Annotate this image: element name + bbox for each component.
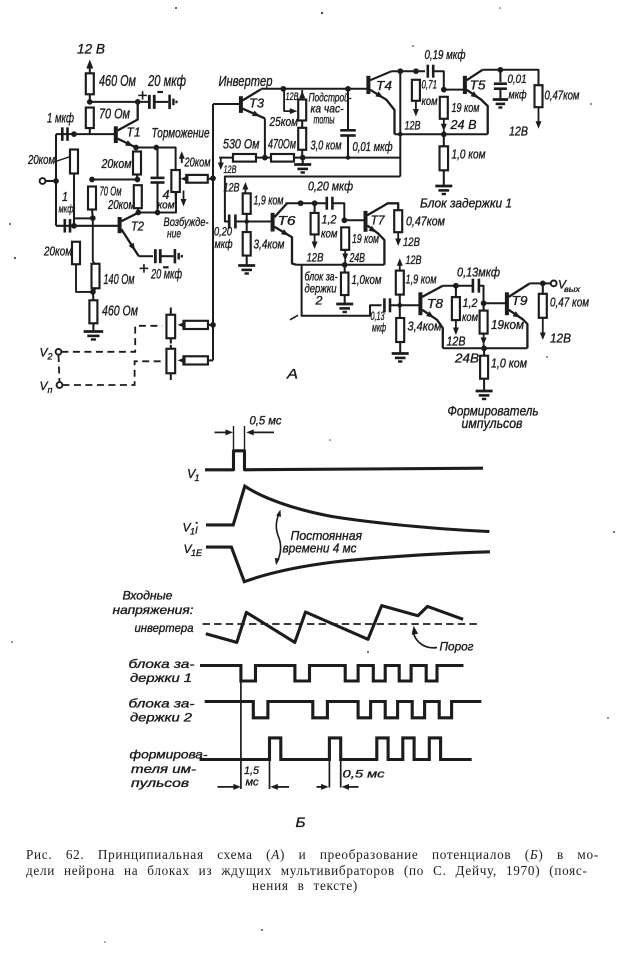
svg-text:ние: ние — [167, 227, 181, 241]
node A junction dots — [87, 99, 93, 105]
wire 20ком-C to line179 — [136, 175, 138, 180]
time-constant curved arrow — [276, 513, 280, 563]
svg-text:12В: 12В — [286, 91, 299, 103]
inverter input sawtooth trace — [206, 606, 463, 643]
svg-text:напряжения:: напряжения: — [113, 605, 194, 617]
svg-text:140 Ом: 140 Ом — [104, 271, 135, 288]
svg-text:19 ком: 19 ком — [352, 232, 379, 246]
resistor 1,2 ком block2 — [311, 213, 319, 235]
transistor T3 emitter with arrow — [243, 109, 265, 119]
node dot 292 — [90, 289, 96, 295]
svg-text:0,19 мкф: 0,19 мкф — [425, 48, 466, 62]
bus dots — [210, 175, 216, 181]
cross-coupling cap leads — [156, 148, 158, 178]
svg-text:+: + — [139, 259, 149, 278]
resistor 460 Ом (T1 collector supply) — [86, 73, 94, 94]
arrow 24В lead of 19ком — [443, 119, 445, 127]
resistor 1,2 ком shaper — [452, 297, 460, 320]
wire cap to T6 base — [235, 221, 271, 223]
resistor 19ком shaper lead — [483, 303, 485, 310]
svg-text:мкф: мкф — [509, 90, 527, 102]
wire T1 base line — [56, 133, 114, 135]
transistor T9 collector — [509, 284, 530, 297]
svg-text:Блок задержки 1: Блок задержки 1 — [420, 196, 512, 211]
transistor T5 emitter with arrow — [467, 90, 488, 135]
svg-text:0,71: 0,71 — [422, 80, 438, 92]
wire 20ком-D to T2 collector — [137, 208, 140, 212]
dashed wire V2-Vn — [59, 355, 60, 382]
trace V1I — [206, 486, 489, 531]
svg-text:ком: ком — [321, 229, 338, 241]
arrow 24В lead 19ком block2 — [344, 250, 346, 257]
scan specks — [175, 7, 177, 9]
svg-text:+: + — [138, 86, 148, 105]
input vertical bus — [55, 134, 57, 226]
rail dots — [262, 155, 268, 161]
wire cap to corner T9 — [479, 286, 484, 304]
svg-text:25ком: 25ком — [269, 115, 299, 129]
wire 140 Ом to node — [93, 288, 95, 292]
capacitor 0,01 мкф T5 plates — [494, 82, 507, 85]
svg-text:20ком: 20ком — [101, 157, 132, 171]
svg-text:1,0 ком: 1,0 ком — [452, 148, 486, 162]
top bus dots — [397, 68, 403, 74]
svg-text:Инвертер: Инвертер — [219, 74, 273, 90]
wire inhibition resistor to bus — [208, 178, 213, 180]
resistor 0,47ком block1 — [535, 85, 543, 107]
svg-text:1,9 ком: 1,9 ком — [406, 273, 437, 287]
svg-text:12В: 12В — [307, 251, 324, 265]
resistor 530 Ом — [233, 154, 256, 162]
resistor 1,0 ком block1 — [440, 146, 449, 170]
svg-text:0,5 мс: 0,5 мс — [343, 769, 386, 781]
svg-text:Т6: Т6 — [278, 213, 297, 228]
svg-text:ком: ком — [158, 200, 175, 212]
transistor T8 base bar — [418, 292, 422, 315]
svg-text:1E: 1E — [191, 548, 203, 558]
svg-text:12 В: 12 В — [77, 41, 105, 57]
svg-text:3,0 ком: 3,0 ком — [311, 139, 342, 153]
resistor 1,2 ком shaper lead — [455, 286, 457, 297]
V2 resistor left arrowhead — [178, 322, 186, 329]
wire T3 collector bus — [261, 88, 368, 90]
resistor 470 Ом — [271, 154, 294, 162]
wire 70 Ом-2 to node — [91, 210, 94, 219]
inhibition resistor left arrowhead — [181, 176, 189, 183]
wire input terminal — [45, 180, 56, 182]
wire T4 collector top bus — [392, 70, 425, 72]
svg-text:12В: 12В — [406, 253, 422, 267]
svg-text:3,4ком: 3,4ком — [254, 238, 285, 252]
capacitor 0,20 мкф top plates — [325, 197, 328, 210]
svg-text:Т5: Т5 — [470, 78, 487, 93]
resistor 19 ком block1 — [440, 97, 448, 119]
svg-text:Т3: Т3 — [249, 96, 265, 111]
wire V2 resistor to bus — [208, 324, 213, 326]
ground below 1,0ком block2 — [344, 295, 346, 303]
potentiometer Vn body — [166, 349, 175, 374]
caption line 2 — [26, 863, 588, 879]
arrow 12В below 0,47 block1 — [538, 107, 540, 124]
resistor 460 Ом lower lead — [92, 292, 95, 300]
transistor T6 base bar — [271, 213, 275, 232]
svg-text:ком: ком — [462, 312, 478, 324]
svg-text:0,13: 0,13 — [371, 311, 385, 323]
svg-text:470Ом: 470Ом — [268, 137, 296, 152]
vertical bus to V2/Vn resistors — [212, 104, 214, 360]
transistor T2 collector — [121, 213, 138, 222]
output dot — [540, 281, 546, 287]
dashed wire V2 to upper pot — [61, 326, 162, 352]
svg-text:держки 2: держки 2 — [130, 713, 193, 725]
resistor 1,0ком block2 — [341, 273, 349, 296]
resistor 70 Ом (T1 base feed) — [86, 108, 94, 129]
T3 bus dots — [280, 86, 286, 92]
power +12V supply arrow (top left) — [89, 64, 91, 74]
svg-text:0,20: 0,20 — [214, 227, 232, 239]
wire emitter node to inhibition pot — [136, 148, 176, 171]
svg-text:ком: ком — [422, 96, 438, 108]
svg-text:460 Ом: 460 Ом — [99, 73, 136, 90]
svg-text:Т1: Т1 — [127, 125, 141, 140]
svg-text:Т9: Т9 — [512, 293, 528, 308]
transistor T1 collector — [118, 102, 138, 131]
transistor T5 collector — [467, 70, 483, 80]
node dot 70Ом2/140Ом — [90, 215, 96, 221]
wire pot to T2 bus — [175, 192, 177, 213]
up arrow 12В shaper — [399, 263, 401, 270]
svg-text:20ком: 20ком — [107, 198, 135, 212]
capacitor 20 мкф lower chassis — [160, 255, 173, 257]
svg-text:12В: 12В — [550, 332, 571, 346]
junction dot T2 base — [71, 223, 77, 229]
wire 24V emitter bus — [395, 133, 488, 135]
svg-text:формирова-: формирова- — [130, 750, 208, 762]
capacitor 1 мкф upper plates — [61, 127, 64, 141]
svg-text:теля им-: теля им- — [131, 764, 196, 776]
svg-text:24В: 24В — [454, 351, 479, 366]
resistor V2 horizontal — [183, 321, 208, 329]
svg-text:0,13мкф: 0,13мкф — [457, 266, 500, 280]
svg-text:Т2: Т2 — [131, 219, 145, 234]
resistor 3,4ком shaper — [396, 318, 404, 342]
transistor T3 base bar — [239, 96, 243, 113]
svg-text:12В: 12В — [509, 125, 528, 139]
svg-text:70 Ом: 70 Ом — [100, 185, 122, 199]
coupling wire block1 to block2 — [225, 177, 400, 222]
resistor 19ком shaper — [480, 311, 488, 334]
transistor T6 emitter with arrow — [274, 227, 296, 265]
alignment vertical line 1 — [240, 666, 242, 790]
svg-text:1 мкф: 1 мкф — [47, 110, 74, 126]
svg-text:2: 2 — [47, 352, 53, 362]
svg-text:20 мкф: 20 мкф — [150, 266, 182, 282]
resistor 1,0 ком block1 lead — [443, 134, 445, 146]
capacitor 0,13 мкф top plates — [472, 279, 475, 293]
svg-text:0,01: 0,01 — [508, 74, 527, 86]
trace shaper output — [200, 738, 472, 760]
wire Vn resistor to bus — [208, 359, 213, 361]
svg-text:24 В: 24 В — [449, 118, 476, 132]
capacitor 20 мкф upper plates — [148, 95, 151, 109]
transistor T5 base bar — [463, 76, 467, 94]
wire cap to corner T7 — [332, 203, 344, 220]
resistor 20ком inhibition horizontal — [186, 175, 208, 183]
measure arrows 0,5мс bottom — [317, 786, 326, 788]
svg-text:1: 1 — [195, 473, 200, 483]
svg-text:0,20 мкф: 0,20 мкф — [308, 180, 353, 194]
arrow 12В below 0,47 block2 — [397, 232, 399, 241]
svg-text:блок за-: блок за- — [305, 272, 338, 284]
threshold dashed line — [203, 623, 479, 625]
ground below 1,0ком block1 — [443, 170, 445, 185]
resistor 20ком lower-left — [72, 242, 80, 265]
wire to T9 base — [484, 302, 507, 304]
svg-text:инвертера: инвертера — [135, 623, 194, 635]
output terminal circle — [551, 281, 557, 287]
wire T5 collector bus — [483, 70, 539, 85]
wire spur to 70 Ом column — [74, 217, 93, 219]
svg-text:24В: 24В — [349, 251, 365, 265]
potentiometer 4 ком body — [171, 170, 180, 192]
wire 20ком-B bottom — [76, 264, 93, 292]
divider junction dot block2 — [244, 219, 249, 224]
ground below 3,4ком block2 — [246, 256, 248, 265]
transistor T7 collector — [367, 203, 398, 215]
resistor 1,9ком block2 — [243, 193, 251, 214]
wire block2 emitter bus — [297, 264, 385, 266]
svg-text:0,47ком: 0,47ком — [406, 215, 445, 229]
svg-text:20ком: 20ком — [27, 153, 55, 167]
input bus junction dot — [53, 178, 59, 184]
wire shaper emitter bus — [443, 347, 528, 349]
wire T2 emitter node — [139, 255, 153, 257]
svg-text:мс: мс — [246, 777, 259, 789]
ground at emitter rail — [302, 158, 304, 164]
resistor 1,2 ком block2 lead — [314, 203, 316, 213]
svg-text:2: 2 — [314, 296, 323, 308]
svg-text:3,4ком: 3,4ком — [408, 320, 442, 334]
svg-text:блока за-: блока за- — [129, 699, 195, 711]
caption line 1 — [26, 847, 599, 863]
trace V1E — [206, 547, 490, 582]
vertical line bus-to-coupling — [399, 71, 401, 176]
emitter rail wire — [219, 157, 400, 159]
wire 20ком-A down to T2 base node — [73, 174, 75, 226]
svg-text:А: А — [286, 366, 298, 382]
dot T9 base node — [481, 300, 487, 306]
svg-text:0,5 мс: 0,5 мс — [250, 416, 282, 428]
transistor T4 base bar — [366, 76, 370, 94]
transistor T6 collector — [274, 203, 287, 217]
svg-text:70 Ом: 70 Ом — [99, 106, 130, 123]
wire 1,9ком to 3,4ком — [246, 214, 248, 232]
svg-text:блока за-: блока за- — [129, 659, 195, 671]
resistor 3,0 ком — [298, 128, 306, 150]
svg-text:I: I — [195, 526, 198, 537]
capacitor 0,13 мкф series plates — [383, 298, 386, 312]
divider junction dot shaper — [398, 303, 403, 308]
wire T2 collector bus — [138, 192, 176, 212]
up arrow 20ком label — [181, 155, 183, 164]
svg-text:20ком: 20ком — [184, 156, 211, 170]
up arrowhead on 25ком top lead — [299, 91, 305, 99]
ground below 0,01 T5 — [499, 89, 501, 99]
svg-text:импульсов: импульсов — [462, 416, 523, 431]
stray corner tick — [290, 315, 298, 320]
resistor 460 Ом lower — [89, 300, 97, 323]
svg-text:вых: вых — [564, 284, 581, 294]
measure arrows 1,5мс — [218, 786, 237, 788]
transistor T4 emitter with arrow — [370, 90, 394, 135]
wire T2 base line — [56, 225, 119, 227]
svg-text:19ком: 19ком — [491, 318, 524, 332]
trace block1 output — [200, 666, 464, 682]
arrow 24В lead 19ком shaper — [483, 334, 485, 341]
wire cap to T8 base — [390, 304, 419, 306]
svg-text:12В: 12В — [224, 181, 240, 195]
transistor T7 emitter with arrow — [367, 226, 384, 265]
trimmer 25ком wiper wire with arrow — [284, 89, 292, 111]
svg-text:0,47ком: 0,47ком — [545, 89, 580, 103]
resistor 25ком — [298, 100, 306, 121]
capacitor 0,01 мкф T5 leads — [499, 70, 501, 82]
svg-text:12В: 12В — [224, 164, 237, 176]
coupling wire block2 to shaper — [302, 265, 382, 316]
resistor 20ком (upper left) — [70, 150, 78, 174]
down arrow 12В at rail left — [220, 158, 222, 166]
svg-text:мкф: мкф — [59, 204, 74, 216]
resistor 19ком block2 — [341, 227, 349, 250]
arrow 12В below 1,2 shaper — [455, 320, 457, 330]
alignment ticks 0,5мс bottom — [328, 760, 330, 788]
label - of upper 20 мкф — [157, 91, 163, 93]
capacitor 20 мкф lower plates — [154, 249, 157, 263]
svg-text:20 мкф: 20 мкф — [147, 73, 186, 90]
svg-text:19 ком: 19 ком — [452, 101, 480, 115]
svg-text:Т8: Т8 — [427, 296, 444, 311]
transistor T7 base bar — [364, 211, 368, 232]
capacitor 0,19 мкф plates — [426, 65, 429, 78]
svg-text:1,5: 1,5 — [244, 765, 260, 777]
caption line 3 — [252, 878, 358, 894]
svg-text:1,0ком: 1,0ком — [352, 273, 382, 287]
dashed wire Vn to lower pot — [62, 361, 162, 385]
arrow 12В below 1,2ком — [314, 235, 316, 245]
wire node to 140 Ом — [93, 218, 95, 264]
resistor 20ком (below T1 emitter) — [133, 152, 141, 175]
resistor 0,47ком block2 — [394, 210, 402, 232]
resistor 1,0 ком shaper lead — [483, 348, 485, 355]
transistor T2 emitter with arrow — [121, 229, 138, 256]
T8 bus dot — [453, 283, 459, 289]
transistor T9 base bar — [505, 292, 509, 315]
alignment vertical line 2 — [269, 760, 271, 790]
svg-text:12В: 12В — [447, 335, 466, 349]
junction dot base/cap/20k — [71, 131, 77, 137]
svg-text:1,9 ком: 1,9 ком — [254, 194, 284, 208]
capacitor 20 мкф upper wire and chassis symbol — [154, 101, 168, 103]
capacitor 0,20 мкф coupling plates — [228, 215, 231, 229]
capacitor 0,01 мкф leads — [347, 89, 349, 131]
resistor 1,9 ком shaper — [396, 271, 404, 295]
svg-text:1: 1 — [62, 190, 68, 204]
capacitor 1 мкф lower plates — [64, 219, 67, 233]
wire 0,19 cap to corner — [433, 71, 444, 89]
block2 bus dot — [342, 262, 348, 268]
arrow 12В below 0,47 shaper — [542, 318, 544, 336]
wire 70 Ом to T1 base line — [89, 128, 91, 134]
transistor T8 collector — [422, 286, 443, 297]
wire node A horizontal bus — [89, 94, 91, 102]
transistor T1 emitter with arrow — [118, 139, 136, 148]
svg-text:тоты: тоты — [314, 115, 335, 127]
transistor T1 base bar — [114, 126, 118, 143]
T2 collector bus dots — [135, 210, 141, 216]
transistor T4 collector — [370, 71, 391, 80]
trace V1 — [205, 451, 483, 470]
potentiometer V2 body — [166, 315, 175, 339]
svg-text:Торможение: Торможение — [152, 126, 210, 141]
wire to T5 base — [444, 89, 463, 91]
svg-text:12В: 12В — [405, 121, 421, 133]
svg-text:1,2: 1,2 — [463, 298, 479, 310]
svg-text:Т7: Т7 — [371, 213, 386, 228]
resistor 1,0ком block2 lead — [344, 265, 346, 273]
svg-text:0,01 мкф: 0,01 мкф — [353, 140, 393, 154]
wire T8 collector bus — [443, 285, 473, 287]
transistor T8 emitter with arrow — [422, 310, 443, 349]
wire 25ком to 3,0ком — [301, 121, 303, 128]
wire 3,0ком to rail — [301, 150, 303, 158]
ground below 3,4ком shaper — [399, 342, 401, 353]
wire T9 collector out — [529, 282, 550, 284]
Vn resistor left arrowhead — [178, 357, 186, 364]
T5 bus dot — [498, 67, 504, 73]
wire to T7 base — [344, 219, 364, 221]
resistor 20ком (above T2 collector) — [134, 185, 142, 208]
down arrow excitation — [183, 191, 185, 203]
label - lower cap — [163, 266, 169, 268]
transistor T2 base bar — [118, 217, 122, 233]
ground below 460 Ом — [92, 323, 94, 330]
resistor 0,47 ком shaper — [539, 294, 547, 318]
svg-text:Б: Б — [296, 814, 306, 830]
terminal Vn circle — [57, 382, 63, 388]
wire T3 base line — [213, 103, 240, 105]
svg-text:держки 1: держки 1 — [130, 673, 192, 685]
svg-text:Т4: Т4 — [376, 78, 392, 93]
svg-text:п: п — [48, 385, 53, 395]
svg-text:460 Ом: 460 Ом — [102, 303, 138, 320]
trace block2 output — [205, 702, 482, 718]
pulse edge tick extensions — [233, 426, 235, 452]
svg-text:12В: 12В — [403, 235, 420, 249]
resistor 3,4ком block2 — [243, 232, 251, 256]
resistor 140 Ом — [92, 264, 100, 289]
resistor Vn horizontal — [183, 356, 208, 364]
input terminal circle — [40, 178, 46, 184]
svg-text:пульсов: пульсов — [131, 778, 189, 790]
capacitor 0,01 мкф plates — [340, 129, 356, 132]
transistor T3 collector — [243, 89, 261, 100]
measure arrows 0,5мс top — [215, 431, 230, 433]
svg-text:Порог: Порог — [440, 640, 474, 654]
svg-text:держки: держки — [305, 284, 337, 296]
transistor T9 emitter with arrow — [509, 310, 528, 349]
svg-text:20ком: 20ком — [43, 245, 72, 259]
shaper bus dot — [481, 345, 487, 351]
